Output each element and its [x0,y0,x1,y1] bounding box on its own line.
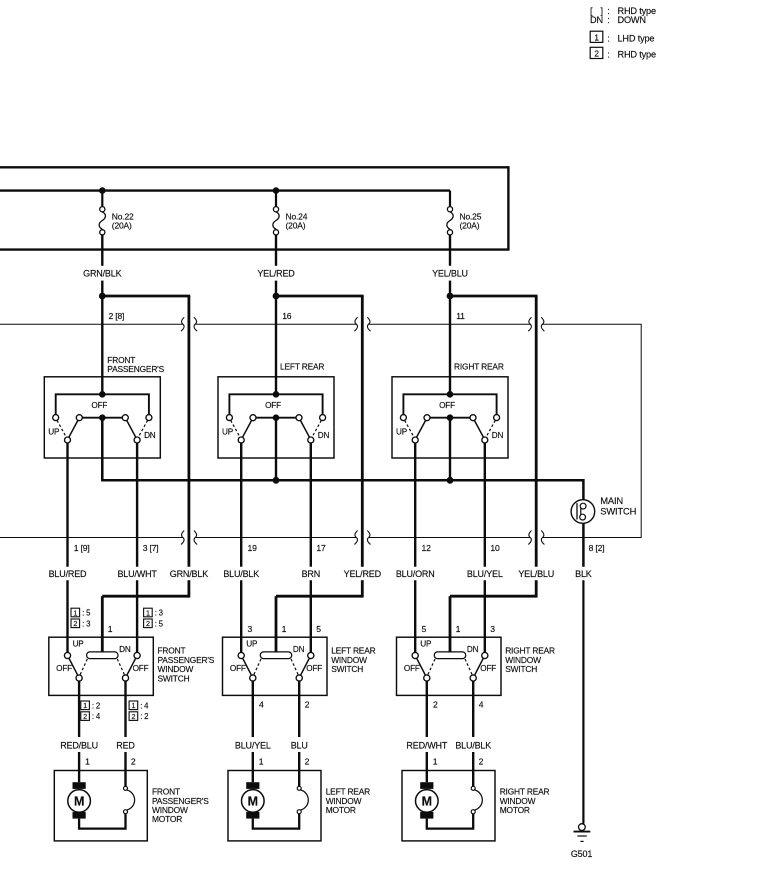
svg-text:M: M [248,795,258,809]
rocker knob (front passenger's switch) [87,652,118,659]
switch arm right solid (front passenger's switch) [127,658,136,675]
svg-text:(20A): (20A) [112,220,132,230]
svg-text:BLU/WHT: BLU/WHT [117,569,157,579]
wire: GRN/BLK main drop to front passenger's master switch section [101,296,103,394]
svg-text:BRN: BRN [302,569,320,579]
wire: common bus of master switch (to MAIN SWITCH) [102,418,583,500]
wire: fuse No.22 output down (GRN/BLK) [101,235,103,296]
svg-text:3: 3 [490,624,495,634]
contact: motor pole 1 (right rear switch) [424,675,430,681]
switch box: left rear section of master switch [218,377,334,458]
switch arm left dashed (left rear switch) [254,659,261,675]
wire: UP output (BLU/BLK) [240,443,242,652]
legend: boxed 1 LHD type [590,31,654,43]
motor box: left rear window motor [228,771,321,841]
svg-text:2: 2 [146,619,150,628]
svg-text:2: 2 [131,712,135,721]
svg-text:BLK: BLK [575,569,592,579]
switch arm left solid (front passenger's switch) [69,658,78,675]
wire: fuse No.25 output down (YEL/BLU) [449,235,451,296]
switch box: front passenger's window switch [49,637,154,695]
label FRONT / PASSENGER'S / WINDOW / MOTOR [152,787,209,825]
svg-text:4: 4 [259,700,264,710]
svg-text:OFF: OFF [306,664,322,673]
svg-text:UP: UP [396,427,408,436]
bus wire 1 (top feed, wraps right side down to bus wire 3) [0,167,508,249]
svg-text:BLU/BLK: BLU/BLK [223,569,259,579]
label RIGHT REAR / WINDOW / SWITCH [505,646,555,674]
rocker knob (left rear switch) [260,652,291,659]
svg-text:LEFT REAR: LEFT REAR [280,361,324,371]
svg-text:1: 1 [73,608,77,617]
pin boxed 1:3 / 2:5 (front passenger's switch DN side) [144,608,164,628]
wire: motor return path (right rear) [427,814,473,829]
node: centre bar feed (left rear) [273,414,280,421]
svg-text:RED/BLU: RED/BLU [60,741,98,751]
svg-text:DN: DN [467,645,479,654]
switch arm UP dashed (right rear) [405,420,414,437]
wire: motor return path (left rear) [253,814,299,829]
contact: UP terminal (front passenger's switch) [64,652,70,658]
svg-text:1 [9]: 1 [9] [74,543,90,553]
svg-text:MOTOR: MOTOR [500,805,530,815]
OFF bar with end contacts (left rear) [226,394,325,420]
connector boundary (upper): master switch connector line [0,317,641,544]
svg-text:UP: UP [420,640,432,649]
wire: DN output (BLU/YEL) [484,443,486,652]
switch box: right rear window switch [397,637,502,695]
contact: DN terminal (left rear switch) [308,652,314,658]
contact: motor pole 2 (right rear switch) [470,675,476,681]
contact: DN pole (left rear upper) [308,437,314,443]
svg-text:UP: UP [73,640,85,649]
svg-text:RHD type: RHD type [618,50,656,60]
legend: [ ] RHD type [590,6,656,16]
pin boxed 1:4 / 2:2 (front passenger's switch lower right) [129,701,149,721]
svg-text:RED: RED [116,741,135,751]
svg-text:DOWN: DOWN [618,15,646,25]
switch arm DN dashed (right rear) [486,420,495,437]
fuse No.24 (20A) [273,191,308,235]
motor internal contact (right rear) [471,786,482,813]
svg-text:2: 2 [305,700,310,710]
switch arm DN dashed (left rear) [312,420,321,437]
contact: motor pole 1 (left rear switch) [250,675,256,681]
junction: bus wire 2 / fuse No.24 [273,187,280,194]
contact: UP pole (front passenger's upper) [65,437,71,443]
switch arm right solid (left rear switch) [301,658,310,675]
svg-text:SWITCH: SWITCH [600,506,636,517]
contact: UP terminal (right rear switch) [412,652,418,658]
switch arm UP dashed (left rear) [231,420,240,437]
svg-text:G501: G501 [571,849,592,859]
contact: DN terminal (front passenger's switch) [134,652,140,658]
svg-text:LHD type: LHD type [618,33,655,43]
OFF bar with end contacts (front passenger's) [53,394,152,420]
svg-text:10: 10 [490,543,500,553]
wire: UP output (BLU/ORN) [414,443,416,652]
svg-text:MOTOR: MOTOR [152,814,182,824]
wire: centre feed down to common bus (right rear) [449,418,451,481]
wire: left rear switch pole 2 to motor (BLU) [298,681,300,786]
main switch (push contact) [571,500,595,524]
svg-text:YEL/RED: YEL/RED [257,268,295,278]
contact: UP pole (left rear upper) [238,437,244,443]
svg-text:YEL/RED: YEL/RED [344,569,382,579]
svg-text:1: 1 [594,33,599,42]
svg-text:OFF: OFF [404,664,420,673]
wire: YEL/RED main drop to left rear master switch section [275,296,277,394]
svg-text:GRN/BLK: GRN/BLK [170,569,208,579]
label LEFT REAR / WINDOW / SWITCH [331,646,375,674]
svg-text:1: 1 [433,756,438,766]
legend: DN DOWN [590,15,646,25]
svg-text:2: 2 [433,700,438,710]
switch arm DN solid (front passenger's) [127,420,136,437]
wire: motor return path (front passenger's) [79,814,125,829]
svg-text:OFF: OFF [56,664,72,673]
switch arm UP solid (right rear) [417,420,426,437]
wire: DN output (BLU/WHT) [136,443,138,652]
svg-text:: 4: : 4 [140,701,149,710]
contact: DN terminal (right rear switch) [482,652,488,658]
svg-text:OFF: OFF [91,401,107,410]
svg-text:M: M [422,795,432,809]
wire: main switch ground lead (BLK) [582,523,585,823]
svg-text:8 [2]: 8 [2] [589,543,605,553]
svg-text:(20A): (20A) [286,220,306,230]
rocker knob (right rear switch) [434,652,465,659]
svg-text:1: 1 [456,624,461,634]
svg-text:12: 12 [422,543,432,553]
svg-text:DN: DN [590,15,603,25]
svg-text::: : [607,33,609,43]
svg-text:1: 1 [108,624,113,634]
svg-text:DN: DN [492,431,504,440]
svg-text:: 2: : 2 [92,701,100,710]
centre bar with contacts (front passenger's) [76,415,128,421]
motor internal contact (left rear) [297,786,308,813]
switch arm right dashed (front passenger's switch) [117,659,124,675]
centre bar with contacts (right rear) [424,415,476,421]
wire: fuse No.24 output down (YEL/RED) [275,235,277,296]
switch arm right solid (right rear switch) [475,658,484,675]
node: feed / OFF bar (right rear) [447,391,454,398]
contact: motor pole 1 (front passenger's switch) [76,675,82,681]
svg-text:MAIN: MAIN [600,495,623,506]
svg-text:3: 3 [248,624,253,634]
junction: bus / left rear feed [273,477,280,484]
svg-text::: : [607,15,609,25]
svg-text:UP: UP [222,427,234,436]
svg-text:M: M [74,795,84,809]
junction: bus wire 2 / fuse No.22 [99,187,106,194]
svg-text:: 5: : 5 [155,619,164,628]
svg-text:MOTOR: MOTOR [326,805,356,815]
svg-text:2: 2 [83,712,87,721]
svg-text:SWITCH: SWITCH [331,664,363,674]
wire: left rear switch pole 1 to motor (BLU/YEL) [252,681,254,782]
svg-text:(20A): (20A) [460,220,480,230]
svg-text:1: 1 [83,701,87,710]
switch arm DN solid (left rear) [300,420,309,437]
wire: DN output (BRN) [310,443,312,652]
wire: GRN/BLK branch to front passenger's window switch (thick) [102,296,190,652]
svg-text:YEL/BLU: YEL/BLU [432,268,468,278]
wire: UP output (BLU/RED) [66,443,68,652]
svg-text:: 4: : 4 [92,712,101,721]
label FRONT / PASSENGER'S / WINDOW / SWITCH [158,646,215,684]
svg-text:DN: DN [119,645,131,654]
svg-text:RED/WHT: RED/WHT [406,741,447,751]
switch arm left dashed (right rear switch) [428,659,435,675]
motor M (front passenger's) [68,782,91,818]
node: GRN/BLK branch junction [99,293,106,300]
svg-text:1: 1 [85,756,90,766]
motor M (left rear) [242,782,265,818]
svg-text:1: 1 [259,756,264,766]
switch arm DN solid (right rear) [474,420,483,437]
svg-text:BLU/BLK: BLU/BLK [455,741,491,751]
svg-text:2: 2 [594,49,599,58]
svg-text:19: 19 [248,543,258,553]
svg-text:17: 17 [316,543,326,553]
junction: bus / right rear feed [447,477,454,484]
svg-text:OFF: OFF [133,664,149,673]
contact: UP pole (right rear upper) [412,437,418,443]
wire: right rear switch pole 2 to motor (BLU/BLK) [472,681,474,786]
bus wire 2 (fused feed) [0,189,450,191]
switch arm UP solid (left rear) [243,420,252,437]
svg-text:OFF: OFF [439,401,455,410]
label RIGHT REAR / WINDOW / MOTOR [500,787,550,815]
fuse No.22 (20A) [99,191,134,235]
label FRONT / PASSENGER'S [107,355,164,374]
wire: YEL/RED branch to left rear window switch (thick) [276,296,364,652]
svg-text:11: 11 [456,311,465,321]
svg-text:1: 1 [146,608,150,617]
node: centre bar feed (right rear) [447,414,454,421]
svg-text:PASSENGER'S: PASSENGER'S [107,364,164,374]
wire: front passenger's switch pole 2 to motor (RED) [124,681,126,786]
label LEFT REAR / WINDOW / MOTOR [326,787,370,815]
svg-text:2 [8]: 2 [8] [109,311,125,321]
switch box: left rear window switch [223,637,328,695]
wire: centre feed down to common bus (front passenger's) [101,418,103,481]
switch arm left dashed (front passenger's switch) [80,659,87,675]
svg-text:2: 2 [305,756,310,766]
svg-text:: 5: : 5 [82,609,91,618]
svg-text:BLU/YEL: BLU/YEL [235,741,271,751]
wire: YEL/BLU main drop to right rear master switch section [449,296,451,394]
label MAIN SWITCH [600,495,636,517]
svg-text:UP: UP [246,640,258,649]
svg-text:1: 1 [131,701,135,710]
legend: boxed 2 RHD type [590,47,656,59]
switch arm DN dashed (front passenger's) [138,420,147,437]
svg-text:YEL/BLU: YEL/BLU [518,569,554,579]
svg-text:2: 2 [479,756,484,766]
fuse No.25 (20A) [447,191,482,235]
svg-text:: 2: : 2 [140,712,148,721]
svg-text:: 3: : 3 [155,609,163,618]
svg-text:5: 5 [316,624,321,634]
svg-text:BLU/ORN: BLU/ORN [396,569,435,579]
node: centre bar feed (front passenger's) [99,414,106,421]
wire: YEL/BLU branch to right rear window switch (thick) [450,296,538,652]
svg-text:SWITCH: SWITCH [505,664,537,674]
motor box: front passenger's window motor [54,771,147,841]
centre bar with contacts (left rear) [250,415,302,421]
svg-text:2: 2 [131,756,136,766]
motor M (right rear) [416,782,439,818]
wire: front passenger's switch pole 1 to motor (RED/BLU) [78,681,80,782]
svg-text:GRN/BLK: GRN/BLK [83,268,121,278]
svg-text:16: 16 [282,311,292,321]
svg-text:UP: UP [48,427,60,436]
svg-text:OFF: OFF [480,664,496,673]
svg-text:DN: DN [318,431,330,440]
svg-text:4: 4 [479,700,484,710]
node: feed / OFF bar (front passenger's) [99,391,106,398]
svg-text:BLU/RED: BLU/RED [49,569,87,579]
contact: DN pole (front passenger's upper) [134,437,140,443]
svg-text:DN: DN [293,645,305,654]
contact: motor pole 2 (front passenger's switch) [122,675,128,681]
pin boxed 1:2 / 2:4 (front passenger's switch lower left) [81,701,101,721]
svg-text:OFF: OFF [230,664,246,673]
svg-text:DN: DN [144,431,156,440]
wire: centre feed down to common bus (left rear) [275,418,277,481]
switch box: right rear section of master switch [392,377,508,458]
OFF bar with end contacts (right rear) [400,394,499,420]
svg-text:1: 1 [282,624,287,634]
svg-text:BLU/YEL: BLU/YEL [467,569,503,579]
svg-text:OFF: OFF [265,401,281,410]
ground G501 [571,824,592,860]
wire: right rear switch pole 1 to motor (RED/WHT) [426,681,428,782]
svg-text:2: 2 [73,619,77,628]
svg-text:5: 5 [422,624,427,634]
svg-text:SWITCH: SWITCH [158,673,190,683]
svg-text:RIGHT REAR: RIGHT REAR [454,361,504,371]
node: feed / OFF bar (left rear) [273,391,280,398]
svg-text::: : [607,50,609,60]
contact: UP terminal (left rear switch) [238,652,244,658]
svg-text:BLU: BLU [291,741,308,751]
node: YEL/RED branch junction [273,293,280,300]
switch arm UP solid (front passenger's) [69,420,78,437]
contact: motor pole 2 (left rear switch) [296,675,302,681]
svg-text:: 3: : 3 [82,619,90,628]
svg-text:3 [7]: 3 [7] [143,543,159,553]
switch arm UP dashed (front passenger's) [57,420,66,437]
switch box: front passenger's section of master switch [44,377,160,458]
motor box: right rear window motor [402,771,495,841]
motor internal contact (front passenger's) [124,786,135,813]
switch arm right dashed (right rear switch) [465,659,472,675]
node: YEL/BLU branch junction [447,293,454,300]
switch arm left solid (left rear switch) [243,658,252,675]
contact: DN pole (right rear upper) [482,437,488,443]
switch arm left solid (right rear switch) [417,658,426,675]
pin boxed 1:5 / 2:3 (front passenger's switch UP side) [71,608,91,628]
switch arm right dashed (left rear switch) [291,659,298,675]
